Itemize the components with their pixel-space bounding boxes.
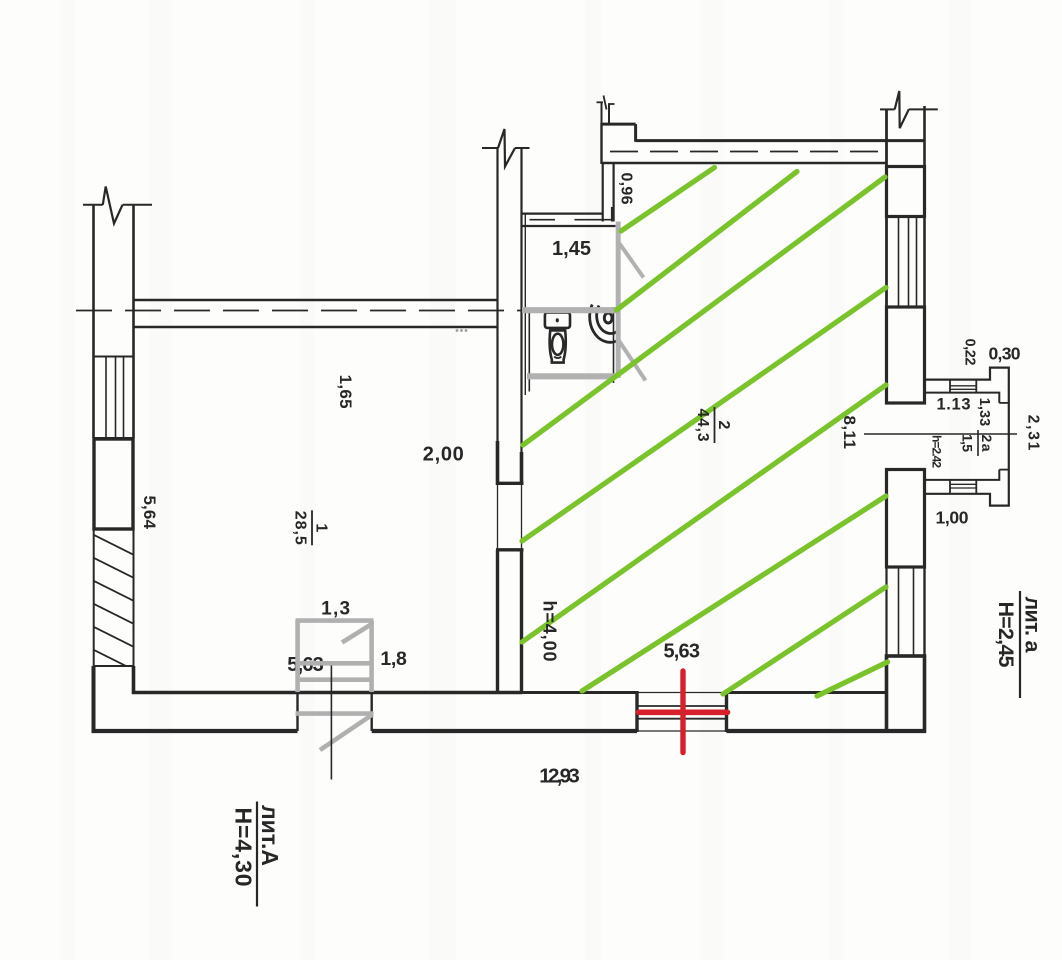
svg-text:1.13: 1.13 [937,396,971,414]
svg-text:1: 1 [313,523,330,532]
toilet bowl bottom arc [554,357,561,359]
vestibule top wall lower line [522,225,616,227]
room1 bottom wall inner bold line [132,691,522,695]
svg-text:Н=4,30: Н=4,30 [231,808,257,887]
GROUP: rotated fraction lit.A label [231,802,284,907]
toilet gray bottom wall [527,373,617,379]
door jamb tick upper [496,482,524,485]
middle wall right bold jamb [520,452,524,485]
GROUP: right exterior wall [880,91,938,731]
wall cut line top-left [83,204,103,206]
svg-text:2,31: 2,31 [1025,415,1042,451]
GROUP: rotated fraction lit.a label [994,591,1045,698]
GROUP: room2 bottom wall with door [522,691,927,732]
room2 bottom wall inner line right part [727,691,888,694]
tank dot [556,318,559,322]
room2 top wall dashed axis [610,151,884,153]
window W1 in left wall top edge [94,356,134,358]
staircase rung 1 [296,661,374,666]
toilet gray top wall [522,307,617,313]
staircase rung below wall [296,711,374,716]
GROUP: green hatch lines room2 [522,168,888,697]
svg-text:1,65: 1,65 [336,375,355,409]
sink inner arc [597,306,618,334]
svg-text:8,11: 8,11 [840,415,859,449]
door jamb tick lower [496,548,524,551]
left wall lower bold segment outer [92,666,96,733]
green line L4 [522,288,886,542]
right wall bold pier lower [887,470,925,568]
porch bottom window lines [950,483,976,485]
svg-text:лит. а: лит. а [1021,597,1045,654]
green line L2 [617,172,798,311]
staircase top edge [296,618,374,623]
mini break spike [604,96,607,110]
vestibule top wall right end cap [611,207,613,222]
toilet tank [545,313,570,328]
room2 top wall outer line [636,139,926,142]
GROUP: vestibule and toilet [522,163,616,395]
right wall bold pier [887,307,925,403]
vestibule right wall pair left line [602,163,604,222]
toilet gray right wall [616,222,621,379]
mini break vertical right [608,104,610,124]
GROUP: porch 2a outline [864,368,1017,506]
green line L3 [523,177,885,445]
threshold thin line outer across door [637,730,727,732]
left wall inner line upper [132,205,135,439]
right wall break zigzag [895,91,909,128]
door jamb left [635,691,638,732]
middle wall break zigzag [498,129,515,167]
bottom wall outer bold right part [727,729,927,733]
porch bottom wall inner line [926,470,1000,480]
GROUP: rotated fraction room2 label 2/44,3 [694,407,732,443]
svg-text:12,93: 12,93 [539,765,580,788]
middle wall lower bold right line [520,550,523,694]
vestibule inner thin left line [524,214,526,395]
GROUP: left exterior wall [83,187,152,667]
staircase rung 2 [296,677,374,682]
threshold thin line inner across door [637,692,727,694]
toilet right thin black line [613,307,615,383]
GROUP: middle wall between room1 and room2 [482,129,530,694]
small smudge marks on room1 top wall [456,329,468,332]
GROUP: text labels horizontal [287,238,1021,788]
bottom wall outer bold line left part [92,729,298,733]
GROUP: rotated fraction room1 label 1/28,5 [292,510,330,545]
porch bottom window edges [949,480,951,494]
vestibule top wall upper line [522,213,604,215]
porch top window edges [949,380,951,393]
green line L5 [522,385,886,642]
toilet bowl inner oval [552,334,563,355]
hatched wall section box [94,530,134,667]
right wall cut line top [880,108,895,110]
porch right door jamb ticks [999,402,1009,404]
right wall bold block below top wall [887,167,925,217]
door leaf line upper [637,705,727,707]
vestibule top wall dashes [530,219,556,221]
svg-text:h=4,00: h=4,00 [540,601,560,662]
door leaf line lower [637,718,727,720]
svg-text:1,45: 1,45 [552,238,591,260]
green line L8 [817,662,888,696]
right wall inner line lower [885,470,887,695]
room1 top wall inner line [134,326,499,328]
toilet neck line [550,329,566,331]
staircase axis thin line [330,666,332,780]
svg-text:1,3: 1,3 [321,599,350,620]
left wall outer line upper [92,205,95,439]
svg-text:28,5: 28,5 [292,511,309,545]
notch top edge [602,123,636,126]
toilet enclosure left thin line [528,313,530,392]
GROUP: text labels rotated [140,173,1041,662]
right wall inner line upper [885,109,888,403]
porch door jamb upper [887,403,925,405]
middle wall cut line [482,147,498,149]
vestibule right wall pair right line [612,163,614,222]
door opening thin right line [521,485,523,549]
room2 top wall inner line [602,162,888,164]
svg-text:0,22: 0,22 [962,339,978,366]
staircase diagonal arrow upper [342,624,373,643]
door swing gray lower [618,339,646,381]
window W3 top edge [887,566,925,568]
svg-text:0,30: 0,30 [989,344,1021,364]
wall break zigzag top-left [103,187,123,224]
GROUP: room1 top wall [76,300,521,327]
right wall outer line lower [923,470,925,732]
window W3 bottom edge [887,655,925,657]
door jamb right [725,691,728,732]
window W1 bottom edge [94,437,134,439]
GROUP: room2 top wall [597,96,926,165]
svg-text:2,00: 2,00 [423,444,464,466]
green line L6 [582,496,886,691]
svg-text:44,3: 44,3 [694,409,711,442]
window W2 pane lines [898,217,900,307]
svg-text:2: 2 [715,421,732,430]
svg-text:h=2.42: h=2.42 [930,435,944,468]
hatch strokes of left wall section [80,528,150,701]
green line L7 [723,587,886,694]
green line L1 [621,168,715,232]
notch step vertical [634,124,637,142]
porch top wall inner line [926,393,1000,403]
notch left cap vertical [600,123,602,164]
GROUP: room1 bottom wall [92,693,637,732]
room1 top wall dashed axis [76,310,521,312]
porch door jamb lower [887,469,925,471]
svg-text:1,8: 1,8 [380,648,407,670]
red demolition cross horizontal stroke [639,709,728,715]
middle wall right line thin [520,148,522,453]
window W2 top edge [887,216,925,218]
svg-text:лит.А: лит.А [257,805,283,866]
toilet bowl outer [550,330,566,362]
right wall outer line upper [923,106,926,404]
right wall corner bold block [887,656,925,731]
svg-text:5,64: 5,64 [140,495,159,529]
porch outer contour [926,368,1009,506]
svg-text:5,63: 5,63 [663,641,700,663]
svg-text:1,33: 1,33 [976,398,992,427]
mini break vertical left [601,102,603,124]
window W1 pane lines [105,357,107,439]
svg-text:1,5: 1,5 [960,434,976,452]
staircase left side [295,621,300,692]
bold wall pier left [94,439,133,529]
sink drain oval [604,313,612,323]
mini break right tick [608,103,615,105]
entry door jamb left [296,693,298,732]
window W3 pane lines [898,567,900,656]
mini break on notch: left tick [597,101,604,103]
red demolition cross vertical stroke [680,671,685,753]
window W2 bottom edge [887,306,925,308]
door opening thin left line [497,485,499,549]
middle wall left bold jamb [496,441,500,485]
room2 bottom wall inner line left part [522,691,638,694]
dimension leader line through porch [864,433,1017,435]
GROUP: toilet fixtures [529,305,619,392]
middle wall lower bold left line [496,550,499,694]
GROUP: staircase gray structure [296,621,374,750]
left wall lower bold segment inner [132,666,136,694]
entry door jamb right [371,693,373,732]
bottom wall outer bold line mid part [372,729,637,733]
staircase right side [369,621,374,692]
GROUP: rotated fraction porch label 2a/1,5 [960,430,996,456]
door swing gray upper [620,244,644,278]
svg-text:1,00: 1,00 [936,508,969,528]
room1 top wall outer line [134,299,499,301]
middle wall left line thin [496,148,498,442]
svg-text:0,96: 0,96 [618,173,635,205]
svg-text:Н=2,45: Н=2,45 [994,602,1018,668]
porch top window lines [950,385,976,387]
svg-text:2a: 2a [979,435,995,452]
sink outer arc [590,305,620,343]
staircase diagonal arrow lower [320,715,373,751]
